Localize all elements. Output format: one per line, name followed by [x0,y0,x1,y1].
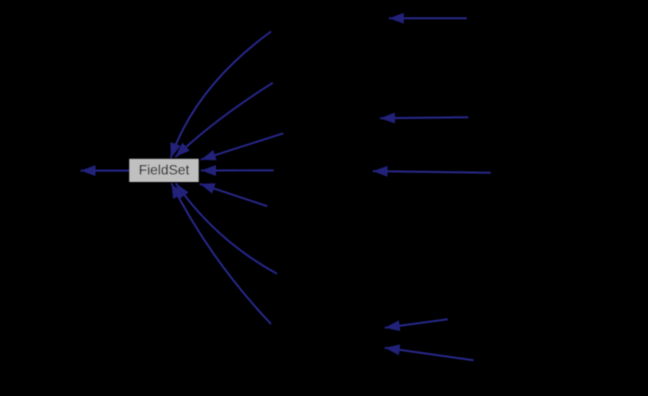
arrow right node to node1 [389,17,467,19]
edge node7 (bottom) to FieldSet bottom edge, curved [171,183,271,324]
edge node2 to FieldSet, curved [175,83,272,157]
svg-text:FieldSet: FieldSet [139,163,190,178]
edge nodeA to FieldSet right edge, horizontal [201,169,274,171]
arrow right node to node4 [380,117,468,118]
edge node1 (top) to FieldSet, curved [171,32,271,159]
edge node3 to FieldSet top-right corner, straight [201,133,284,159]
arrow lower-right node to node7 [385,348,474,360]
arrow right node to nodeA [373,171,491,173]
edge node5 to FieldSet bottom-right corner, straight [200,184,268,206]
node FieldSet [129,159,199,182]
edge FieldSet to left node [81,170,130,172]
edge node6 to FieldSet bottom edge, curved [176,183,277,274]
arrow upper-right node to node7 [385,319,448,328]
